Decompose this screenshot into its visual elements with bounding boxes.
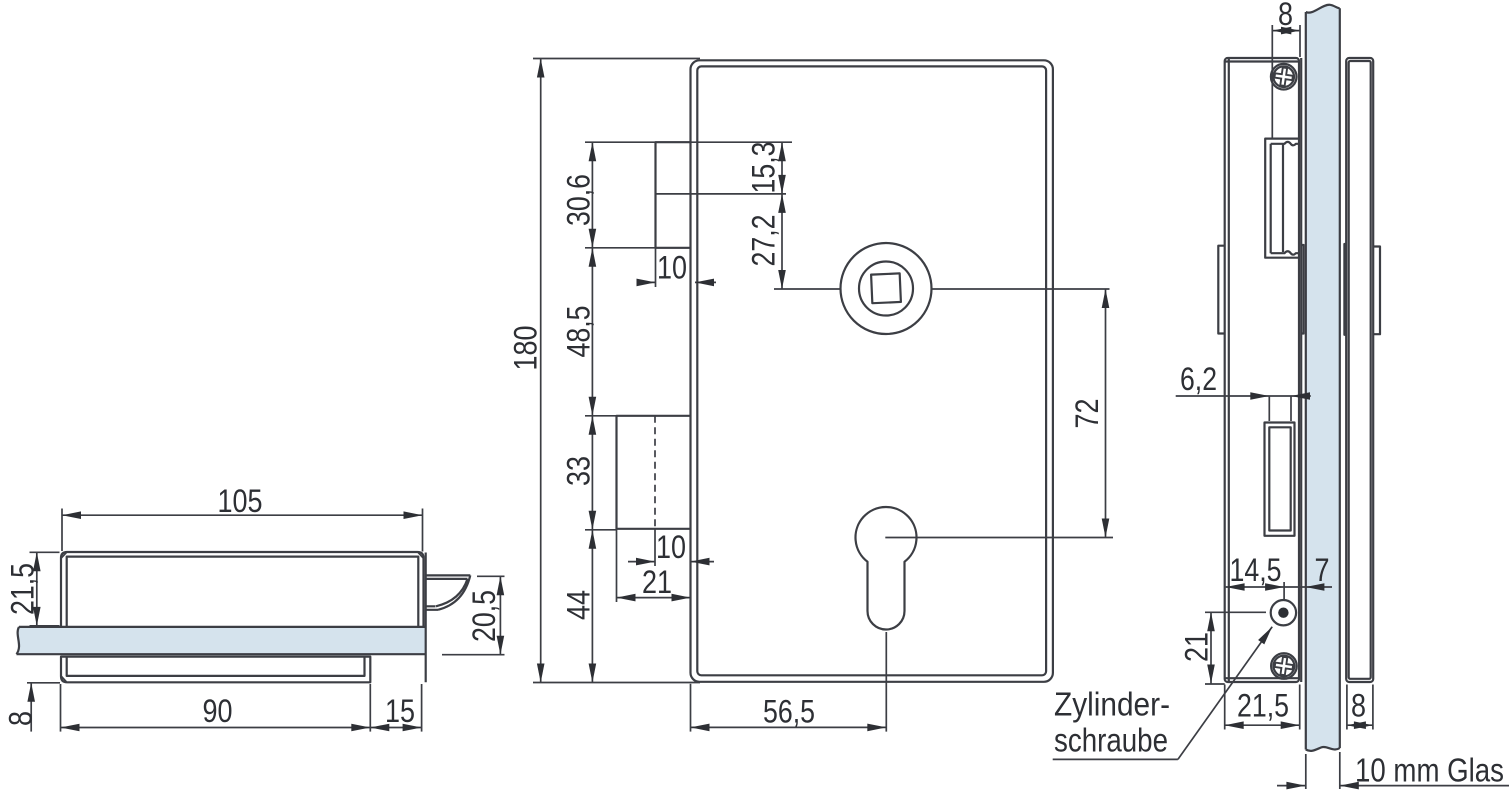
svg-text:7: 7 [1315, 552, 1330, 588]
dim 20,5 extensions [442, 576, 505, 654]
latch bolt top wave [1271, 142, 1299, 145]
glass-side bump left plate [1301, 245, 1303, 334]
dim 90 extension mid [369, 684, 371, 732]
dim 14,5 arrows [1226, 583, 1245, 591]
chain extension 530 [585, 529, 617, 531]
svg-text:8: 8 [1351, 688, 1366, 724]
dim 15 arrows [370, 724, 389, 732]
svg-text:90: 90 [203, 693, 233, 729]
lock case upper inner line [67, 557, 419, 627]
faceplate edge line [1300, 58, 1302, 682]
glass panel (side view) [17, 627, 426, 654]
lock plate left outer [1225, 58, 1299, 682]
dim 90-15 line [61, 727, 422, 729]
spindle centerline left [774, 288, 840, 290]
dim 105 extension left [61, 509, 63, 552]
dim 8 line [30, 683, 32, 732]
follower hidden line [654, 416, 656, 529]
lock plate left inner left edge [1228, 59, 1230, 682]
spindle square [871, 273, 901, 303]
latch slot inner [1270, 144, 1272, 253]
dim 14,5 extension [1283, 582, 1285, 600]
dim 6,2 extensions [1269, 396, 1291, 421]
glass edge top [19, 626, 426, 628]
dim 10 lower stubs [628, 561, 714, 563]
faceplate edge line [425, 553, 427, 683]
svg-text:27,2: 27,2 [746, 215, 782, 267]
dim 8 bottom arrows [1347, 721, 1366, 729]
glass-side bump right plate [1344, 244, 1346, 335]
dim 21 line [617, 597, 691, 599]
svg-text:8: 8 [3, 711, 39, 726]
dim 10 top extension [655, 248, 657, 287]
dim 14,5 and 7 line [1226, 586, 1332, 588]
dim 15,3 27,2 line [781, 142, 783, 289]
spindle centerline right [932, 288, 1110, 290]
chain dim line [591, 142, 593, 682]
svg-text:schraube: schraube [1054, 722, 1168, 759]
dim 180 arrows [537, 59, 545, 78]
lock plate left inner top edge [1225, 60, 1299, 62]
dim 33 arrows [589, 416, 597, 435]
mounting tab right [1373, 247, 1380, 335]
mounting tab left [1218, 246, 1224, 334]
screw bottom cross [1274, 656, 1294, 676]
latch bolt bottom wave [1271, 251, 1299, 254]
svg-text:6,2: 6,2 [1180, 361, 1217, 397]
chain extension 248 [585, 247, 691, 249]
dim 10 lower arrows [636, 558, 655, 566]
dim 10 top stubs [637, 281, 716, 283]
glass edge extensions below [1306, 752, 1340, 789]
dim 21 arrows [1207, 612, 1215, 631]
glass panel (edge view) fill [1306, 5, 1340, 751]
dim 56,5 line [691, 726, 887, 728]
svg-text:33: 33 [561, 456, 597, 486]
cylinder screw dot [1278, 608, 1288, 618]
svg-text:10 mm Glas: 10 mm Glas [1355, 752, 1504, 789]
dim 180 extension top [533, 58, 700, 60]
dim 8 bottom line [1347, 724, 1373, 726]
latch slot outer [1265, 139, 1298, 258]
clamp plate lower inner lines [67, 657, 365, 676]
dim 21,5 extensions [1225, 685, 1300, 730]
dim 105 line [62, 514, 423, 516]
glass top break line [1306, 5, 1340, 13]
dim 105 extension right [422, 509, 424, 552]
dim 10 lower extension [654, 529, 656, 566]
glass left edge [1305, 12, 1307, 750]
glass dim right line [1340, 785, 1509, 787]
lock body front inner [697, 66, 1046, 675]
dim 180 extension bottom [533, 682, 700, 684]
label underline [1053, 758, 1178, 760]
cover plate right outer [1346, 58, 1373, 682]
svg-text:56,5: 56,5 [763, 694, 815, 730]
dim 48,5 arrows [589, 248, 597, 267]
latch front rect [656, 142, 691, 248]
dim 20,5 arrows [497, 576, 505, 595]
dim 72 arrows [1102, 289, 1110, 308]
latch mid line [656, 193, 787, 195]
dim 90 extension left [60, 684, 62, 732]
corner chamfer bottom-left [62, 677, 67, 682]
svg-text:30,6: 30,6 [561, 174, 597, 226]
lock body front outer [691, 60, 1053, 682]
lower window outer [1265, 423, 1295, 536]
cylinder screw circle [1271, 600, 1296, 625]
dim 7 arrow [1305, 583, 1324, 591]
latch bolt line [1282, 145, 1284, 253]
lock plate left inner bottom edge [1225, 677, 1299, 679]
svg-text:20,5: 20,5 [466, 590, 502, 642]
dim 8 top extensions [1272, 25, 1300, 139]
chain extension 142 [585, 141, 792, 143]
leader arrow [1258, 624, 1275, 644]
svg-text:105: 105 [218, 483, 263, 519]
svg-text:21,5: 21,5 [5, 563, 41, 615]
dim 21,5 arrows [1225, 721, 1244, 729]
lower window inner [1269, 427, 1290, 530]
dim 8 top arrows [1272, 27, 1291, 35]
clamp plate lower (side view) outer [61, 657, 370, 683]
dim 20,5 line [499, 576, 501, 654]
dim 15 extension right [421, 684, 423, 732]
keyhole bottom extension [885, 632, 887, 732]
screw top cross [1274, 67, 1294, 87]
svg-text:Zylinder-: Zylinder- [1054, 686, 1170, 723]
dim 6,2 line [1176, 395, 1311, 397]
dim 30,6 arrows [589, 142, 597, 161]
dim 105 arrows [62, 511, 81, 519]
dim 90 arrows [61, 724, 80, 732]
dim 44 arrows [589, 530, 597, 549]
dim 15,3 arrows [778, 142, 786, 161]
dim 180 line [540, 59, 542, 683]
dim 21,5 arrows [33, 552, 41, 571]
svg-text:15,3: 15,3 [746, 142, 782, 194]
glass dim left stub [1277, 785, 1305, 787]
svg-text:8: 8 [1278, 0, 1293, 32]
dim 21,5 extensions [30, 552, 60, 626]
follower window rect [617, 416, 691, 529]
lock case upper (side view) outer [61, 552, 424, 626]
dim 10 top arrows [637, 279, 656, 287]
dim 27,2 arrows [778, 194, 786, 213]
glass bottom break line [1306, 747, 1340, 751]
dim 21,5 line [36, 552, 38, 626]
svg-text:10: 10 [657, 250, 687, 286]
dim 21 extension [616, 529, 618, 602]
svg-text:72: 72 [1069, 399, 1105, 429]
corner chamfer top-left [62, 553, 67, 558]
svg-text:21: 21 [642, 564, 672, 600]
dim 6,2 arrows [1250, 392, 1269, 400]
svg-text:21,5: 21,5 [1237, 688, 1289, 724]
dim 8 top line [1272, 30, 1300, 32]
keyhole centerline [885, 537, 1113, 539]
svg-text:21: 21 [1179, 632, 1215, 662]
spindle inner circle [859, 262, 913, 316]
glass edge bottom [17, 653, 426, 655]
corner chamfer top-right [418, 553, 423, 558]
latch bolt curve outer [438, 575, 470, 609]
svg-text:180: 180 [508, 326, 544, 371]
svg-text:14,5: 14,5 [1230, 552, 1282, 588]
screw top circles [1271, 64, 1297, 90]
glass right edge [1339, 8, 1341, 748]
dim 8 arrow [27, 683, 35, 702]
dim 56,5 extension left [690, 684, 692, 732]
dim 8 bottom extensions [1347, 685, 1373, 730]
latch bolt bottom edge [426, 606, 438, 610]
dim 21,5 line [1225, 724, 1300, 726]
dim 72 line [1105, 289, 1107, 538]
dim 56,5 arrows [691, 724, 710, 732]
latch bolt curve inner [436, 579, 468, 606]
dim 21 line right view [1210, 612, 1212, 683]
svg-text:10: 10 [656, 529, 686, 565]
cover plate right inner [1349, 61, 1371, 679]
dim 21 extensions [1205, 612, 1266, 684]
svg-text:44: 44 [561, 590, 597, 620]
spindle outer circle [841, 243, 932, 334]
chain extension 416 [585, 415, 617, 417]
svg-text:48,5: 48,5 [561, 306, 597, 358]
keyhole [855, 507, 916, 629]
screw bottom circles [1271, 653, 1297, 679]
leader line [1178, 627, 1272, 760]
glass break line [17, 627, 20, 654]
dim 21 arrows [617, 594, 636, 602]
latch bolt (side view) top edge [426, 575, 471, 579]
svg-text:15: 15 [385, 693, 415, 729]
dim 8 extension [27, 682, 60, 684]
